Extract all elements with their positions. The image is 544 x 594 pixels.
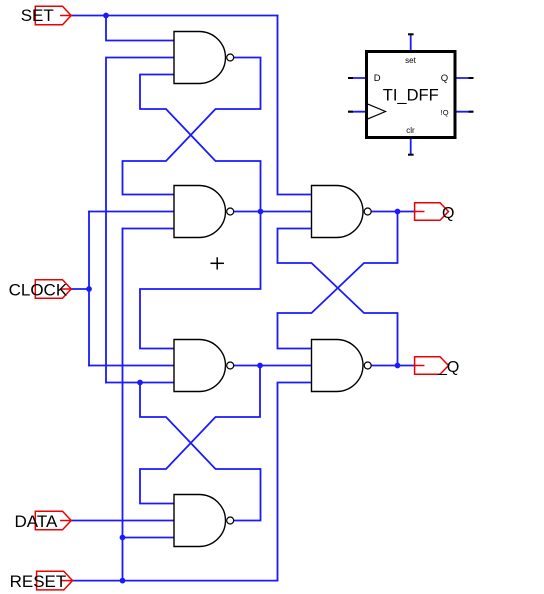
wire RESET to U6 input3 — [278, 383, 312, 581]
wire U3 output to U6 input2 — [234, 365, 312, 367]
TI_DFF clock triangle — [367, 104, 386, 120]
plus symbol node — [211, 258, 223, 269]
wire CLOCK vertical — [88, 212, 90, 366]
svg-text:_Q: _Q — [437, 359, 459, 376]
node U3 output junction — [257, 363, 263, 369]
input flag RESET — [37, 571, 73, 590]
node RESET junction at U4 input3 — [120, 535, 126, 541]
pin set of TI_DFF — [410, 35, 412, 52]
wire feedback horizontal into U3 input3 — [106, 382, 174, 384]
wire RESET main horizontal — [73, 580, 278, 582]
svg-text:CLOCK: CLOCK — [9, 280, 68, 299]
svg-text:D: D — [374, 73, 381, 84]
wire U5 output to Q flag — [372, 211, 415, 213]
wire U2 output up through X1 to U1 input3 — [140, 75, 261, 212]
nand gate U6 — [312, 340, 372, 392]
wire RESET to U4 input3 — [123, 537, 175, 539]
svg-text:RESET: RESET — [10, 572, 67, 591]
node RESET junction on main rail — [120, 578, 126, 584]
input flag SET — [35, 6, 71, 25]
wire SET branch to U1 input1 — [106, 16, 174, 41]
svg-text:DATA: DATA — [15, 512, 58, 531]
node CLOCK junction — [86, 286, 92, 292]
wire U1 output to X1 to U2 input1 — [123, 58, 261, 195]
wire U4 output feedback to U3 input3 and U1 input2 — [140, 383, 261, 521]
svg-text:set: set — [405, 56, 416, 65]
wire SET main horizontal — [71, 15, 277, 17]
svg-text:clr: clr — [406, 126, 415, 135]
node feedback junction at U3 input3 — [137, 380, 143, 386]
wire U2 output to U5 input2 — [234, 211, 312, 213]
pin D of TI_DFF — [349, 77, 367, 79]
pin notQ of TI_DFF — [455, 111, 473, 113]
nand gate U3 — [174, 340, 234, 392]
wire DATA to U4 input2 — [71, 520, 174, 522]
wire U5 output through X2 to U6 input1 — [278, 212, 398, 349]
pin clr of TI_DFF — [410, 138, 412, 155]
input flag CLOCK — [35, 280, 71, 299]
wire RESET vertical branch — [122, 229, 124, 581]
pin Q of TI_DFF — [455, 77, 473, 79]
wire CLOCK to U2 input2 — [89, 211, 174, 213]
svg-text:Q: Q — [441, 73, 448, 84]
node U6 output junction — [395, 363, 401, 369]
wire U6 output to Qbar flag — [372, 365, 415, 367]
svg-text:Q: Q — [442, 205, 454, 222]
node SET branch junction — [103, 13, 109, 19]
svg-text:TI_DFF: TI_DFF — [383, 87, 439, 105]
node U5 output junction — [395, 209, 401, 215]
wire SET to U5 input1 — [278, 16, 312, 195]
pin clock of TI_DFF — [349, 111, 367, 113]
nand gate U2 — [174, 186, 234, 238]
input flag DATA — [35, 511, 71, 530]
wire U3 output down through X3 to U4 input1 — [140, 366, 260, 504]
wire RESET to U2 input3 — [123, 228, 175, 230]
nand gate U4 — [174, 495, 234, 547]
nand gate U5 — [312, 186, 372, 238]
TI_DFF pin end ticks — [349, 34, 473, 154]
output flag Q — [415, 203, 449, 221]
wire CLOCK stub — [71, 288, 89, 290]
wire CLOCK to U3 input2 — [89, 365, 174, 367]
wire U2 output down to U3 input1 — [140, 212, 261, 349]
node U2 output junction — [258, 209, 264, 215]
svg-text:SET: SET — [21, 6, 54, 25]
nand gate U1 — [174, 32, 234, 84]
TI_DFF block U7 body — [367, 52, 456, 138]
svg-text:!Q: !Q — [441, 108, 449, 117]
output flag Qbar — [415, 357, 449, 375]
wire feedback vertical to U1 input2 — [106, 58, 174, 383]
wire U6 output through X2 to U5 input3 — [278, 229, 398, 366]
